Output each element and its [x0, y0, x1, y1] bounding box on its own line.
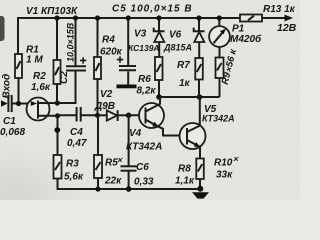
svg-text:R6: R6	[138, 74, 151, 85]
resistor R6	[155, 57, 163, 80]
svg-text:С1: С1	[3, 116, 16, 127]
svg-text:КТ342А: КТ342А	[126, 142, 162, 153]
svg-text:V3: V3	[134, 29, 147, 40]
wire R2 top	[56, 18, 58, 60]
resistor R1	[15, 54, 22, 78]
wire R1 bottom to gate node	[18, 78, 20, 104]
svg-text:0,068: 0,068	[0, 127, 25, 138]
node P1 rail	[217, 15, 222, 20]
diode V2	[107, 110, 118, 121]
capacitor C2	[66, 18, 86, 71]
svg-text:R3: R3	[66, 159, 79, 170]
wire source lead	[39, 115, 58, 117]
wire diode cathode to C6 node	[118, 114, 129, 116]
svg-text:R7: R7	[177, 60, 190, 71]
svg-text:R2: R2	[33, 71, 46, 82]
wire R9 bottom	[219, 78, 221, 97]
svg-text:V4: V4	[129, 128, 142, 139]
wire to V4 base	[129, 114, 146, 116]
svg-text:Д9В: Д9В	[94, 101, 115, 112]
transistor V5	[180, 123, 206, 149]
svg-text:С4: С4	[70, 127, 83, 138]
wire V5 collector	[199, 97, 201, 126]
node C6 rail	[126, 186, 132, 192]
svg-text:22к: 22к	[104, 176, 122, 187]
wire R13 output segment	[262, 17, 287, 19]
node R4 rail	[95, 15, 100, 20]
wire source line to C4	[58, 114, 77, 116]
svg-text:Вход: Вход	[2, 74, 13, 99]
svg-text:620к: 620к	[100, 47, 123, 58]
capacitor C4	[77, 107, 81, 122]
node R6-V4 collector	[156, 94, 162, 100]
wire R2 bottom	[56, 84, 58, 103]
svg-text:Р1: Р1	[232, 24, 245, 35]
top supply rail wire	[18, 18, 240, 54]
svg-text:R4: R4	[102, 35, 115, 46]
ground symbol	[192, 192, 209, 198]
paper background	[0, 0, 300, 200]
svg-text:V6: V6	[169, 30, 182, 41]
wire C4 to R4 node	[81, 114, 98, 116]
capacitor C6	[121, 115, 137, 189]
mid collector bus wire	[159, 96, 220, 98]
node R7-V5 collector	[197, 94, 203, 100]
scan edge artifact	[0, 16, 5, 41]
wire R4 bottom	[97, 79, 99, 115]
svg-text:R10: R10	[214, 158, 233, 169]
resistor R13	[240, 15, 262, 22]
svg-text:5,6к: 5,6к	[64, 172, 84, 183]
zener V3	[154, 18, 165, 57]
node R4-R5-diode junction	[95, 113, 100, 118]
svg-text:R13 1к: R13 1к	[263, 4, 296, 15]
svg-text:R8: R8	[178, 164, 191, 175]
wire V5 emitter to R8	[199, 147, 201, 159]
svg-text:1 М: 1 М	[26, 55, 43, 66]
svg-text:33к: 33к	[216, 170, 233, 181]
node V6 rail	[196, 15, 201, 20]
resistor R2	[54, 60, 61, 84]
wire R5 bottom	[97, 178, 99, 189]
node diode-C6-base junction	[126, 113, 132, 119]
svg-text:С2: С2	[59, 71, 70, 84]
wire drain line	[38, 71, 76, 103]
node below source	[54, 127, 60, 133]
svg-text:12В: 12В	[277, 22, 297, 34]
capacitor C5	[117, 18, 136, 85]
svg-text:8,2к: 8,2к	[137, 86, 157, 97]
wire diode anode	[98, 114, 107, 116]
wire source column down to R3	[57, 116, 59, 155]
capacitor C1	[8, 95, 11, 112]
wire R7 bottom	[198, 80, 200, 98]
zener V6	[194, 18, 205, 58]
svg-text:С5 100,0×15 В: С5 100,0×15 В	[112, 4, 193, 15]
node R2 rail	[54, 15, 59, 20]
svg-text:КС139А: КС139А	[128, 43, 160, 53]
resistor R7	[195, 58, 203, 80]
node V3 rail	[156, 15, 161, 20]
wire R5 top	[97, 115, 99, 155]
transistor V4	[139, 103, 164, 128]
output arrow 12V	[285, 15, 294, 22]
svg-text:1к: 1к	[179, 78, 191, 89]
node ground junction	[197, 186, 203, 192]
svg-text:V1 КП103К: V1 КП103К	[26, 6, 78, 17]
node R5 rail	[95, 186, 100, 191]
svg-text:КТ342А: КТ342А	[202, 114, 235, 124]
wire C1 to gate node	[12, 103, 38, 105]
resistor R9	[216, 58, 224, 79]
svg-text:С6: С6	[136, 162, 149, 173]
svg-text:1,6к: 1,6к	[31, 82, 51, 93]
transistor V1 FET	[27, 98, 50, 121]
wire R3 bottom to rail corner	[58, 179, 203, 190]
wire R4 top	[97, 18, 99, 57]
wire R8 bottom	[199, 179, 201, 189]
node gate junction	[16, 101, 21, 106]
node source junction	[55, 113, 60, 118]
resistor R4	[94, 57, 101, 79]
meter P1	[209, 18, 230, 58]
wire R6 bottom	[158, 80, 160, 97]
node C2 rail	[73, 15, 78, 20]
svg-text:V2: V2	[100, 89, 113, 100]
svg-text:0,33: 0,33	[134, 177, 154, 188]
svg-text:10,0×15В: 10,0×15В	[66, 22, 76, 62]
chassis ground bar under C5	[117, 85, 137, 89]
svg-text:1,1к: 1,1к	[175, 176, 195, 187]
input terminal arrow	[1, 100, 8, 107]
svg-text:Д815А: Д815А	[163, 43, 192, 53]
resistor R5	[94, 155, 102, 178]
wire V4 emitter to V5 base	[158, 126, 188, 135]
node C5 rail	[126, 15, 131, 20]
resistor R8	[196, 159, 204, 180]
node drain-R2 junction	[55, 100, 60, 105]
resistor R3	[54, 155, 62, 179]
svg-text:М420б: М420б	[230, 33, 262, 45]
svg-text:0,47: 0,47	[67, 138, 87, 149]
wire V4 collector	[159, 97, 161, 105]
